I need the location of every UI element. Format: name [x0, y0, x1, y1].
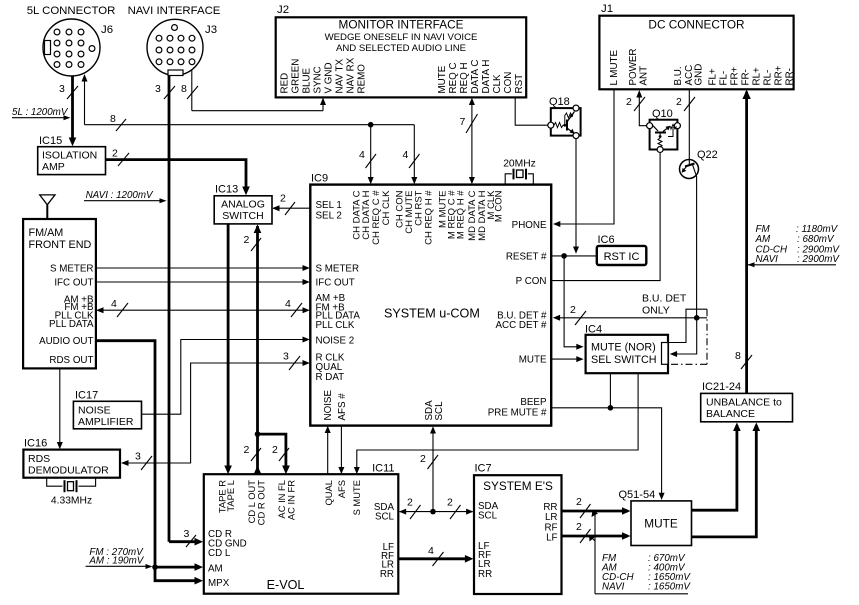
svg-text:R DAT: R DAT — [316, 372, 345, 383]
wire IC7 RR/LR to MUTE (2 lines) — [562, 496, 631, 518]
svg-text:IFC OUT: IFC OUT — [54, 277, 93, 288]
label FM 1180mV table — [748, 224, 841, 267]
svg-text:POWER: POWER — [628, 48, 639, 85]
svg-text:4: 4 — [403, 149, 409, 161]
wire IC9 BEEP/PRE MUTE to Q51-54 MUTE — [552, 405, 665, 500]
svg-text:RR+: RR+ — [774, 65, 785, 85]
svg-text:CLK: CLK — [492, 74, 503, 94]
svg-text:P CON: P CON — [516, 276, 547, 287]
svg-text:SEL 1: SEL 1 — [316, 200, 342, 211]
wire Q10 to J1 POWER/ANT (2 lines) — [626, 90, 650, 126]
svg-text:ACC DET #: ACC DET # — [496, 320, 548, 331]
wire Q18 to RESET line — [573, 139, 579, 254]
svg-text:AMPLIFIER: AMPLIFIER — [78, 416, 134, 428]
svg-text:AM : 190mV: AM : 190mV — [88, 556, 144, 567]
svg-text:RESET #: RESET # — [506, 251, 547, 262]
svg-text:DC CONNECTOR: DC CONNECTOR — [648, 18, 744, 32]
svg-text:AM: AM — [208, 564, 223, 575]
svg-text:8: 8 — [181, 83, 187, 95]
svg-text:SWITCH: SWITCH — [222, 210, 263, 222]
svg-text:PHONE: PHONE — [512, 220, 547, 231]
svg-text:L MUTE: L MUTE — [609, 49, 620, 85]
svg-text:CON: CON — [503, 72, 514, 94]
svg-text:DATA C: DATA C — [470, 60, 481, 94]
wire J1 speakers 8-bus to UNBALANCE — [735, 90, 752, 394]
svg-text:REQ H: REQ H — [459, 62, 470, 93]
svg-text:RL-: RL- — [763, 70, 774, 86]
connector J3 (NAVI INTERFACE) — [128, 5, 221, 76]
svg-text:SYSTEM E'S: SYSTEM E'S — [483, 479, 553, 493]
svg-text:3: 3 — [135, 451, 141, 463]
FM/AM FRONT END — [23, 219, 96, 368]
connector J1 (DC CONNECTOR) — [599, 3, 795, 89]
svg-text:IC16: IC16 — [24, 438, 47, 450]
svg-text:FRONT END: FRONT END — [29, 239, 92, 251]
wire IC9 RESET# to RST IC — [552, 253, 597, 259]
svg-text:ANT: ANT — [639, 66, 650, 86]
connector J6 (5L CONNECTOR) — [27, 5, 116, 76]
svg-text:NOISE: NOISE — [323, 390, 334, 421]
svg-text:J2: J2 — [277, 4, 289, 16]
wire MUTE out to UNBALANCE (front pair) — [692, 423, 741, 511]
svg-text:RST: RST — [514, 74, 525, 94]
svg-text:RR-: RR- — [784, 68, 795, 85]
svg-text:IC13: IC13 — [215, 184, 238, 196]
IC7 SYSTEM E'S — [474, 463, 562, 595]
svg-text:AND SELECTED AUDIO LINE: AND SELECTED AUDIO LINE — [336, 43, 466, 54]
wire J1 L MUTE to IC9 PHONE — [553, 89, 614, 227]
UNBALANCE to BALANCE IC21-24 — [701, 381, 793, 422]
wire IC13 to E-VOL TAPE (2 lines) — [224, 224, 232, 474]
IC13 ANALOG SWITCH — [214, 184, 272, 224]
svg-text:DATA H: DATA H — [481, 60, 492, 94]
svg-text:4: 4 — [359, 149, 365, 161]
svg-text:E-VOL: E-VOL — [267, 578, 305, 592]
svg-text:2: 2 — [576, 521, 582, 533]
wire E-VOL LF/RF/LR/RR 4-bus to IC7 — [398, 545, 473, 566]
svg-text:NOISE: NOISE — [78, 405, 111, 417]
connector J2 (MONITOR INTERFACE) — [276, 4, 527, 97]
svg-text:RED: RED — [280, 73, 291, 94]
svg-text:BALANCE: BALANCE — [706, 408, 755, 420]
svg-text:ANALOG: ANALOG — [221, 199, 265, 211]
svg-text:3: 3 — [184, 528, 190, 540]
svg-text:Q22: Q22 — [697, 149, 718, 161]
svg-text:BLUE: BLUE — [302, 67, 313, 93]
svg-text:4: 4 — [285, 298, 291, 310]
IC4 MUTE (NOR) SEL SWITCH — [585, 324, 668, 374]
wire Q10 to IC9 P CON — [552, 153, 660, 281]
svg-text:FL-: FL- — [719, 71, 730, 86]
wire CD OUT loop to AC IN (2 lines) — [258, 434, 290, 474]
svg-text:NAV TX: NAV TX — [335, 59, 346, 94]
wire S METER — [96, 265, 310, 271]
label B.U. DET ONLY — [642, 293, 687, 317]
wire J6 to IC15 (3 lines) — [59, 76, 78, 146]
svg-text:2: 2 — [112, 148, 118, 160]
svg-text:Q10: Q10 — [652, 108, 673, 120]
wire IC4 to E-VOL S MUTE — [354, 373, 638, 474]
wire IC9 MUTE to IC4 — [552, 356, 584, 362]
svg-text:NAV RX: NAV RX — [346, 57, 357, 93]
svg-text:M CON: M CON — [494, 190, 505, 222]
svg-text:RL+: RL+ — [752, 67, 763, 86]
svg-text:AC IN FR: AC IN FR — [286, 480, 297, 520]
antenna — [40, 195, 55, 219]
wire E-VOL QUAL up to IC9 NOISE — [325, 426, 331, 474]
wire J3 8-bus to J2 — [181, 70, 326, 111]
svg-text:NAVI: NAVI — [756, 254, 779, 265]
svg-text:S METER: S METER — [316, 264, 360, 275]
svg-text:PLL DATA: PLL DATA — [49, 319, 94, 330]
transistor Q10 — [647, 108, 681, 153]
transistor Q18 — [548, 96, 581, 139]
svg-text:Q18: Q18 — [549, 96, 570, 108]
svg-text:2: 2 — [570, 304, 576, 316]
svg-text:NAVI: NAVI — [602, 582, 625, 593]
svg-text:RDS OUT: RDS OUT — [49, 355, 93, 366]
svg-text:J1: J1 — [601, 3, 613, 15]
svg-text:WEDGE ONESELF IN NAVI VOICE: WEDGE ONESELF IN NAVI VOICE — [325, 32, 478, 43]
svg-text:NOISE 2: NOISE 2 — [316, 335, 355, 346]
crystal 20MHz — [503, 159, 536, 185]
label FM 670mV table — [589, 510, 691, 594]
svg-text:SYSTEM u-COM: SYSTEM u-COM — [384, 307, 480, 321]
wire IC9 B.U./ACC DET 2-bus — [553, 304, 707, 325]
svg-text:TAPE L: TAPE L — [225, 480, 236, 512]
svg-text:AUDIO OUT: AUDIO OUT — [39, 336, 93, 347]
svg-text:M REQ H #: M REQ H # — [456, 190, 467, 239]
svg-text:FR-: FR- — [741, 69, 752, 85]
svg-text:IC6: IC6 — [598, 234, 615, 246]
svg-text:IC15: IC15 — [39, 135, 62, 147]
IC15 ISOLATION AMP — [38, 135, 106, 175]
wire Q22 to B.U. DET line — [696, 177, 698, 318]
svg-text:3: 3 — [155, 83, 161, 95]
svg-text:FL+: FL+ — [708, 68, 719, 85]
svg-text:SCL: SCL — [434, 401, 445, 421]
IC9 SYSTEM u-COM — [310, 173, 551, 426]
svg-text:S METER: S METER — [50, 264, 94, 275]
svg-text:B.U.: B.U. — [673, 66, 684, 85]
wire J2 RST to Q18 — [515, 97, 547, 125]
svg-text:2: 2 — [272, 444, 278, 456]
svg-text:MUTE: MUTE — [437, 65, 448, 93]
IC16 RDS DEMODULATOR — [23, 438, 120, 478]
svg-text:SEL 2: SEL 2 — [316, 211, 342, 222]
wire AUDIO OUT thick to AM/MPX — [96, 341, 203, 585]
svg-text:CH REQ H #: CH REQ H # — [423, 190, 434, 245]
svg-text:5L CONNECTOR: 5L CONNECTOR — [27, 5, 116, 17]
wire MUTE out to UNBALANCE (rear pair) — [692, 423, 761, 537]
svg-text:MUTE (NOR): MUTE (NOR) — [591, 342, 656, 354]
wire J2 7-bus to IC9 M pins — [460, 98, 478, 185]
svg-text:SCL: SCL — [478, 511, 498, 522]
wire J1 B.U./ACC to Q22 (2 lines) — [676, 89, 695, 159]
svg-text:2: 2 — [420, 453, 426, 465]
wire J6 8-bus split: 4 lines to CH group — [359, 122, 376, 184]
wire PLL 4-bus — [96, 298, 310, 317]
svg-text:LF: LF — [546, 533, 557, 544]
svg-text:8: 8 — [110, 113, 116, 125]
svg-text:IC7: IC7 — [475, 463, 492, 475]
svg-text:B.U. DET: B.U. DET — [642, 293, 687, 305]
svg-text:4: 4 — [428, 545, 434, 557]
wire IC4 bottom to BEEP line — [609, 373, 611, 408]
svg-text:3: 3 — [59, 83, 65, 95]
svg-text:PLL CLK: PLL CLK — [316, 320, 355, 331]
svg-text:AFS: AFS — [336, 480, 347, 498]
svg-text:4: 4 — [111, 298, 117, 310]
svg-text:GREEN: GREEN — [291, 59, 302, 94]
svg-text:IC11: IC11 — [372, 463, 394, 475]
wire IC9 AFS# down to E-VOL AFS — [338, 426, 344, 475]
svg-text:5L : 1200mV: 5L : 1200mV — [12, 107, 69, 118]
wire J3 NAVI 3-bus down to E-VOL CD inputs — [155, 76, 203, 548]
svg-text:UNBALANCE to: UNBALANCE to — [706, 397, 782, 409]
svg-text:IC21-24: IC21-24 — [702, 381, 741, 393]
svg-text:Q51-54: Q51-54 — [619, 489, 656, 501]
E-VOL IC11 — [204, 463, 398, 594]
svg-text:SEL SWITCH: SEL SWITCH — [591, 354, 657, 366]
svg-text:CH CLK: CH CLK — [381, 190, 392, 226]
svg-text:MPX: MPX — [208, 578, 230, 589]
svg-text:QUAL: QUAL — [323, 480, 334, 506]
MUTE box Q51-54 — [619, 489, 692, 546]
svg-text:FM/AM: FM/AM — [29, 227, 64, 239]
svg-text:SYNC: SYNC — [313, 66, 324, 93]
wire 8-bus into J6 — [82, 74, 415, 131]
svg-text:AMP: AMP — [42, 161, 65, 173]
svg-text:IC4: IC4 — [585, 324, 602, 336]
wire SDA/SCL bus IC9/E-VOL/IC7 — [399, 426, 474, 519]
svg-text:: 1650mV: : 1650mV — [648, 582, 691, 593]
svg-text:2: 2 — [447, 497, 453, 509]
svg-text:8: 8 — [735, 350, 741, 362]
svg-text:: 2900mV: : 2900mV — [797, 254, 840, 265]
wire E-VOL CD OUT up to IC13 (2 lines) — [244, 224, 262, 474]
wire IFC OUT — [96, 279, 310, 285]
svg-text:DEMODULATOR: DEMODULATOR — [28, 465, 109, 477]
wire IC15 output to IC13 (2 lines) — [106, 148, 250, 196]
svg-text:2: 2 — [626, 96, 632, 108]
svg-text:PRE MUTE #: PRE MUTE # — [488, 407, 547, 418]
wire B.U. DET branch to IC4 right tab — [668, 309, 707, 357]
svg-text:IC9: IC9 — [311, 173, 328, 185]
svg-text:CD L: CD L — [208, 548, 231, 559]
svg-text:2: 2 — [280, 193, 286, 205]
wire R CLK/QUAL/R DAT 3-bus to IC9 and RDS demod — [121, 351, 310, 471]
wire RESET junction down to IC4 input — [564, 256, 584, 350]
svg-text:RDS: RDS — [28, 453, 50, 465]
svg-text:2: 2 — [244, 234, 250, 246]
svg-text:ONLY: ONLY — [642, 305, 670, 317]
label FM 270mV / AM 190mV — [86, 547, 153, 569]
label 5L : 1200mV — [12, 107, 71, 120]
svg-text:3: 3 — [283, 351, 289, 363]
svg-text:J3: J3 — [205, 24, 217, 36]
svg-text:MONITOR INTERFACE: MONITOR INTERFACE — [339, 18, 464, 32]
svg-text:J6: J6 — [101, 24, 113, 36]
svg-text:GND: GND — [694, 64, 705, 86]
svg-text:NAVI INTERFACE: NAVI INTERFACE — [128, 5, 221, 17]
svg-text:V GND: V GND — [324, 62, 335, 93]
svg-text:RR: RR — [478, 569, 492, 580]
svg-text:ISOLATION: ISOLATION — [42, 150, 97, 162]
svg-text:CD R OUT: CD R OUT — [256, 480, 267, 526]
IC6 RST IC — [597, 234, 647, 265]
svg-text:RR: RR — [380, 569, 394, 580]
wire RDS OUT down to IC16 — [57, 368, 63, 449]
svg-text:IC17: IC17 — [75, 390, 98, 402]
svg-text:IFC OUT: IFC OUT — [316, 277, 355, 288]
svg-text:NAVI : 1200mV: NAVI : 1200mV — [86, 190, 154, 201]
svg-text:REQ C: REQ C — [448, 62, 459, 93]
svg-text:2: 2 — [676, 96, 682, 108]
svg-text:2: 2 — [244, 444, 250, 456]
wire 4 lines to CH CON group — [403, 125, 420, 185]
svg-text:RST IC: RST IC — [604, 251, 640, 263]
svg-text:MUTE: MUTE — [644, 517, 678, 531]
svg-text:LR: LR — [545, 512, 558, 523]
wire NOISE 2 from IC17 to IC9 — [142, 337, 310, 415]
svg-text:S MUTE: S MUTE — [351, 480, 362, 515]
crystal 4.33MHz — [47, 478, 96, 507]
label NAVI : 1200mV — [84, 190, 167, 203]
svg-text:2: 2 — [407, 497, 413, 509]
svg-text:4.33MHz: 4.33MHz — [51, 496, 92, 507]
svg-text:MUTE: MUTE — [519, 355, 547, 366]
svg-text:7: 7 — [460, 116, 466, 128]
svg-text:SCL: SCL — [375, 512, 395, 523]
wire IC7 RF/LF to MUTE (2 lines) — [562, 521, 631, 543]
svg-text:20MHz: 20MHz — [503, 159, 536, 170]
svg-text:AFS #: AFS # — [337, 393, 348, 421]
svg-text:REMO: REMO — [357, 64, 368, 94]
dash-dot B.U. DET ONLY boundary — [670, 309, 707, 364]
wire IC9 SEL1/SEL2 to IC13 (2 lines) — [272, 193, 310, 216]
svg-text:2: 2 — [576, 496, 582, 508]
IC17 NOISE AMPLIFIER — [73, 390, 141, 429]
svg-text:FR+: FR+ — [730, 66, 741, 85]
transistor Q22 — [680, 149, 718, 179]
